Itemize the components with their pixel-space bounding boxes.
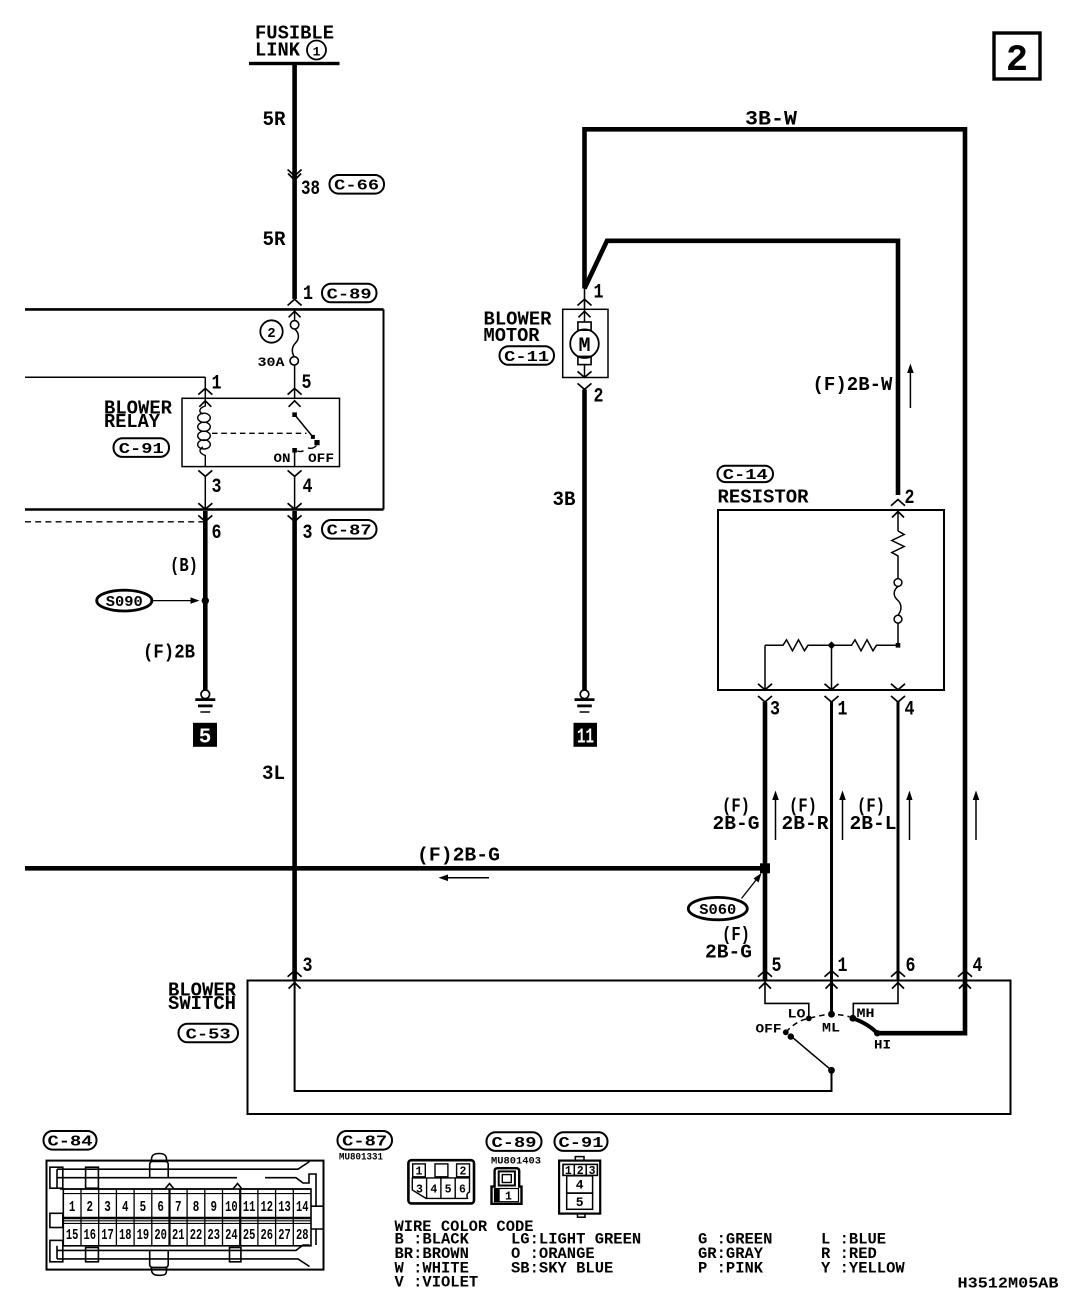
svg-text:RESISTOR: RESISTOR [718, 487, 810, 509]
svg-text:2: 2 [267, 326, 275, 342]
wire 2B-G horizontal feed [25, 866, 765, 871]
svg-text:24: 24 [225, 1228, 238, 1244]
svg-text:P :PINK: P :PINK [698, 1259, 763, 1277]
blower relay box [182, 398, 340, 466]
wire black pin 6 to ground S090 [203, 511, 208, 690]
resistor element R1 vertical zigzag [892, 510, 904, 579]
svg-text:28: 28 [296, 1228, 309, 1244]
svg-text:4: 4 [576, 1178, 584, 1193]
junction dot resistor network [828, 641, 836, 649]
svg-text:6: 6 [212, 522, 222, 545]
svg-text:3B: 3B [553, 489, 576, 512]
ground number 11 box [574, 723, 598, 750]
connector badge C-87 [322, 520, 377, 540]
blower relay label [104, 397, 173, 433]
svg-text:2B-G: 2B-G [713, 813, 760, 835]
ground symbol S090 [195, 690, 215, 712]
svg-text:5: 5 [199, 727, 212, 750]
svg-text:2: 2 [577, 1165, 584, 1178]
page number box 2 [994, 33, 1040, 82]
svg-text:1: 1 [416, 1166, 423, 1179]
relay actuation dashed line [212, 432, 307, 434]
chevrons motor pin 1 [578, 299, 592, 317]
contact dot OFF [783, 1029, 789, 1035]
motor pin 1 wire [584, 289, 586, 310]
contact dot ML [828, 1011, 835, 1018]
svg-text:3L: 3L [262, 763, 285, 786]
svg-text:23: 23 [207, 1228, 220, 1244]
svg-text:5R: 5R [263, 229, 286, 252]
chevrons switch pin 3 [288, 971, 302, 989]
svg-text:5R: 5R [263, 109, 286, 132]
connector badge C-53 [179, 1024, 239, 1044]
connector C-87 pin numbers [416, 1166, 467, 1197]
fuse element squiggle [292, 329, 298, 357]
connector C-91 pin numbers [565, 1165, 596, 1210]
wire 2B-G resistor pin3 to switch pin5 [763, 702, 768, 981]
svg-text:2B-R: 2B-R [782, 813, 830, 835]
svg-text:C-11: C-11 [504, 349, 549, 366]
svg-text:HI: HI [874, 1038, 891, 1053]
contact dot HI [874, 1030, 880, 1036]
splice S090 [97, 590, 152, 611]
chevrons relay pin 5 [288, 388, 302, 406]
svg-text:30A: 30A [258, 355, 285, 370]
relay coil [198, 398, 211, 466]
svg-text:(F)2B: (F)2B [143, 641, 195, 663]
svg-text:6: 6 [459, 1184, 466, 1197]
svg-text:2: 2 [1006, 40, 1028, 82]
wire 3B-W top horizontal [585, 129, 966, 980]
svg-text:4: 4 [905, 699, 915, 722]
wire 3L from C-87 pin 3 down to blower switch [292, 511, 297, 981]
svg-text:(B): (B) [170, 555, 198, 577]
fusible link label [255, 23, 334, 62]
contact dot MH [849, 1015, 856, 1022]
connector C-84 pin grid [63, 1189, 311, 1246]
relay OFF contact [314, 440, 319, 445]
svg-text:17: 17 [101, 1228, 114, 1244]
svg-text:3: 3 [416, 1184, 423, 1197]
junction block bottom edge [25, 508, 384, 511]
wiper arm end dot [788, 1033, 794, 1039]
contact dot LO [806, 1016, 812, 1022]
svg-text:MH: MH [857, 1006, 875, 1021]
wire 2B-L resistor pin4 to switch pin6 [897, 702, 900, 981]
svg-text:OFF: OFF [756, 1021, 782, 1036]
svg-text:16: 16 [84, 1228, 97, 1244]
direction arrow 2B-G [772, 791, 779, 841]
connector badge C-66 [330, 175, 385, 195]
svg-text:3: 3 [770, 699, 780, 722]
dashed line under junction block [25, 521, 205, 523]
svg-text:ML: ML [822, 1021, 840, 1036]
wiper pivot dot [828, 1067, 835, 1074]
junction block right edge [383, 309, 385, 509]
direction arrow 2B-W [907, 364, 914, 409]
connector badge C-91 bottom [555, 1132, 608, 1152]
switch pin 1 internal wire to ML [830, 981, 833, 1015]
svg-text:18: 18 [119, 1228, 132, 1244]
svg-text:MU801403: MU801403 [491, 1156, 541, 1168]
svg-text:2: 2 [905, 487, 915, 510]
chevrons resistor pin 2 [891, 500, 905, 518]
svg-text:OFF: OFF [308, 451, 334, 466]
svg-text:3: 3 [589, 1165, 596, 1178]
connector badge C-91 (relay) [114, 438, 170, 458]
connector badge C-89 [322, 284, 377, 304]
arrow S090 to wire [153, 597, 200, 603]
chevrons pin 3 C-87 at junction block bottom [288, 503, 302, 521]
svg-text:C-91: C-91 [559, 1135, 604, 1152]
svg-text:M: M [578, 335, 590, 358]
svg-text:5: 5 [772, 955, 782, 978]
svg-text:6: 6 [157, 1200, 164, 1216]
dashed selector arc OFF-LO-ML-MH [786, 1014, 850, 1032]
chevrons pin 6 at junction block bottom [198, 503, 212, 521]
svg-text:C-84: C-84 [48, 1134, 93, 1151]
svg-text:3: 3 [212, 476, 222, 499]
svg-text:S090: S090 [106, 594, 143, 611]
svg-text:1: 1 [565, 1165, 572, 1178]
svg-text:22: 22 [190, 1228, 203, 1244]
svg-text:26: 26 [261, 1228, 274, 1244]
switch pin 6 internal bracket to MH [853, 981, 898, 1018]
thermal fuse in resistor [894, 579, 902, 646]
svg-text:5: 5 [140, 1200, 147, 1216]
chevron relay pin 3 [198, 470, 212, 476]
fuse bottom circle [290, 357, 298, 365]
svg-text:11: 11 [243, 1200, 256, 1216]
wire motor to resistor horizontal [585, 241, 899, 495]
wire color code column 1 [395, 1231, 479, 1292]
circled 1 (fusible link number) [307, 41, 326, 60]
svg-text:9: 9 [210, 1200, 217, 1216]
switch pin 5 internal bracket to LO [765, 981, 809, 1019]
direction arrow 2B-R [839, 791, 846, 841]
chevrons at junction box top (wire 5R enters) [288, 299, 302, 317]
svg-text:3: 3 [303, 955, 313, 978]
svg-text:C-14: C-14 [723, 467, 768, 484]
solid selector arc MH-HI [853, 1018, 877, 1033]
resistor elements R2 R3 horizontal [765, 640, 898, 690]
junction block top edge [25, 308, 384, 311]
blower switch box [248, 981, 1011, 1115]
svg-text:1: 1 [505, 1191, 512, 1204]
svg-text:S060: S060 [699, 902, 736, 919]
direction arrow 2B-W right [973, 791, 980, 841]
wire 2B-R resistor pin1 to switch pin1 [830, 702, 833, 981]
connector C-84 housing [47, 1161, 324, 1270]
direction arrow left on 2B-G feed [439, 875, 490, 882]
chevrons switch pin 4 [958, 971, 972, 989]
svg-text:SWITCH: SWITCH [168, 993, 236, 1015]
svg-text:25: 25 [243, 1228, 256, 1244]
svg-text:LO: LO [788, 1007, 806, 1022]
svg-text:21: 21 [172, 1228, 185, 1244]
svg-text:(F)2B-G: (F)2B-G [417, 844, 500, 866]
svg-text:C-53: C-53 [186, 1026, 231, 1043]
svg-text:27: 27 [278, 1228, 291, 1244]
svg-text:1: 1 [212, 372, 222, 395]
svg-text:4: 4 [303, 476, 313, 499]
svg-text:4: 4 [430, 1184, 437, 1197]
svg-text:5: 5 [445, 1184, 452, 1197]
chevrons resistor pin 3 [758, 684, 772, 702]
svg-text:C-87: C-87 [327, 523, 372, 540]
svg-text:2B-L: 2B-L [850, 813, 897, 835]
svg-text:4: 4 [122, 1200, 129, 1216]
svg-text:1: 1 [838, 955, 848, 978]
label (F)2B-L [850, 796, 897, 835]
svg-text:1: 1 [69, 1200, 76, 1216]
svg-text:8: 8 [193, 1200, 200, 1216]
splice junction dot S060 [760, 863, 770, 873]
svg-text:13: 13 [278, 1200, 291, 1216]
svg-text:1: 1 [594, 281, 604, 304]
svg-text:ON: ON [274, 451, 291, 466]
svg-text:2: 2 [460, 1166, 467, 1179]
connector badge C-89 bottom [487, 1132, 542, 1152]
resistor box [718, 510, 944, 690]
fuse 2 30A: wire into fuse [294, 309, 296, 320]
connector C-87 drawing [408, 1160, 474, 1203]
svg-text:C-89: C-89 [492, 1135, 537, 1152]
svg-text:11: 11 [577, 727, 594, 750]
label (F)2B-R [782, 796, 830, 835]
wiper arm [790, 1035, 832, 1070]
svg-text:2B-G: 2B-G [705, 941, 752, 963]
fusible link bus bar [249, 62, 340, 65]
svg-text:SB:SKY BLUE: SB:SKY BLUE [511, 1259, 613, 1277]
chevrons relay pin 1 [198, 388, 212, 406]
junction square resistor pin4 [896, 643, 901, 648]
chevrons motor pin 2 [578, 371, 592, 389]
ground number 5 box [193, 723, 217, 750]
connector C-89 drawing [492, 1168, 522, 1204]
wire relay pin 3 down [204, 476, 206, 509]
chevrons resistor pin 1 [825, 684, 839, 702]
svg-text:C-91: C-91 [119, 441, 164, 458]
relay switch contact from pin 5 [292, 412, 297, 417]
svg-text:14: 14 [296, 1200, 309, 1216]
svg-text:MOTOR: MOTOR [484, 325, 541, 347]
svg-text:LINK: LINK [255, 40, 301, 62]
wire from fuse to relay pin 5 [294, 365, 296, 398]
wire relay pin 4 down [294, 476, 296, 509]
blower motor box [563, 309, 608, 377]
svg-text:3: 3 [303, 522, 313, 545]
svg-text:2: 2 [594, 386, 604, 409]
svg-text:3: 3 [104, 1200, 111, 1216]
direction arrow 2B-L [906, 791, 912, 841]
svg-text:4: 4 [973, 955, 983, 978]
fuse top circle [290, 321, 298, 329]
label (F)2B-G vertical wire [713, 796, 760, 835]
junction dot on black wire [202, 597, 209, 604]
svg-text:C-87: C-87 [342, 1134, 387, 1151]
svg-text:5: 5 [576, 1195, 584, 1210]
chevrons switch pin 5 [758, 971, 772, 989]
svg-text:20: 20 [154, 1228, 167, 1244]
blower motor label [484, 308, 553, 346]
blower switch label [168, 979, 237, 1015]
connector C-84 pin numbers row 1 [69, 1200, 309, 1216]
svg-text:1: 1 [303, 283, 313, 306]
svg-text:38: 38 [301, 178, 320, 201]
arrow S060 to junction [742, 873, 762, 899]
svg-text:MU801331: MU801331 [339, 1152, 383, 1164]
connector badge C-84 [44, 1131, 97, 1151]
svg-text:(F)2B-W: (F)2B-W [813, 374, 894, 396]
switch pin 3 internal wire [295, 981, 832, 1092]
svg-text:1: 1 [838, 699, 848, 722]
svg-text:1: 1 [313, 45, 321, 60]
label (F) 2B-G below S060 [705, 924, 752, 964]
svg-text:3B-W: 3B-W [745, 109, 797, 132]
wire 5R from fusible link down to C-66 [292, 65, 297, 299]
splice S060 [688, 897, 747, 919]
svg-text:10: 10 [225, 1200, 238, 1216]
connector C-84 pin numbers row 2 [66, 1228, 309, 1244]
wire 3B motor to ground [582, 390, 587, 691]
chevrons switch pin 1 [825, 971, 839, 989]
relay ON contact [292, 448, 297, 453]
connector badge C-87 bottom [338, 1131, 393, 1151]
ground symbol motor [575, 690, 595, 712]
connector C-91 drawing [559, 1157, 600, 1218]
connector crossing C-66 double chevron [288, 170, 302, 181]
chevrons switch pin 6 [891, 971, 905, 989]
switch pin 4 internal wire to HI [877, 981, 965, 1034]
svg-text:RELAY: RELAY [104, 411, 161, 433]
relay switch arm [295, 415, 314, 438]
feed line to relay coil pin 1 [25, 376, 205, 378]
svg-text:H3512M05AB: H3512M05AB [958, 1276, 1059, 1293]
svg-text:C-89: C-89 [327, 286, 372, 303]
connector C-84 lower rails and tabs [50, 1154, 324, 1276]
connector badge C-14 [718, 466, 774, 484]
svg-text:Y :YELLOW: Y :YELLOW [821, 1259, 905, 1277]
svg-text:7: 7 [175, 1200, 182, 1216]
svg-text:19: 19 [137, 1228, 150, 1244]
svg-text:5: 5 [302, 372, 312, 395]
svg-text:15: 15 [66, 1228, 79, 1244]
circled 2 (fuse number) [260, 320, 282, 342]
wire color code column 2 [511, 1231, 641, 1278]
wire color code column 3 [698, 1231, 772, 1278]
svg-text:V :VIOLET: V :VIOLET [395, 1274, 479, 1292]
svg-text:C-66: C-66 [334, 178, 379, 195]
motor M symbol [570, 309, 599, 377]
chevrons resistor pin 4 [891, 684, 905, 702]
svg-text:12: 12 [261, 1200, 274, 1216]
chevron relay pin 4 [288, 470, 302, 476]
svg-text:6: 6 [906, 955, 916, 978]
wire ON contact to pin 4 [294, 450, 296, 466]
svg-text:2: 2 [87, 1200, 94, 1216]
connector badge C-11 [500, 346, 555, 366]
wire color code column 4 [821, 1231, 905, 1278]
